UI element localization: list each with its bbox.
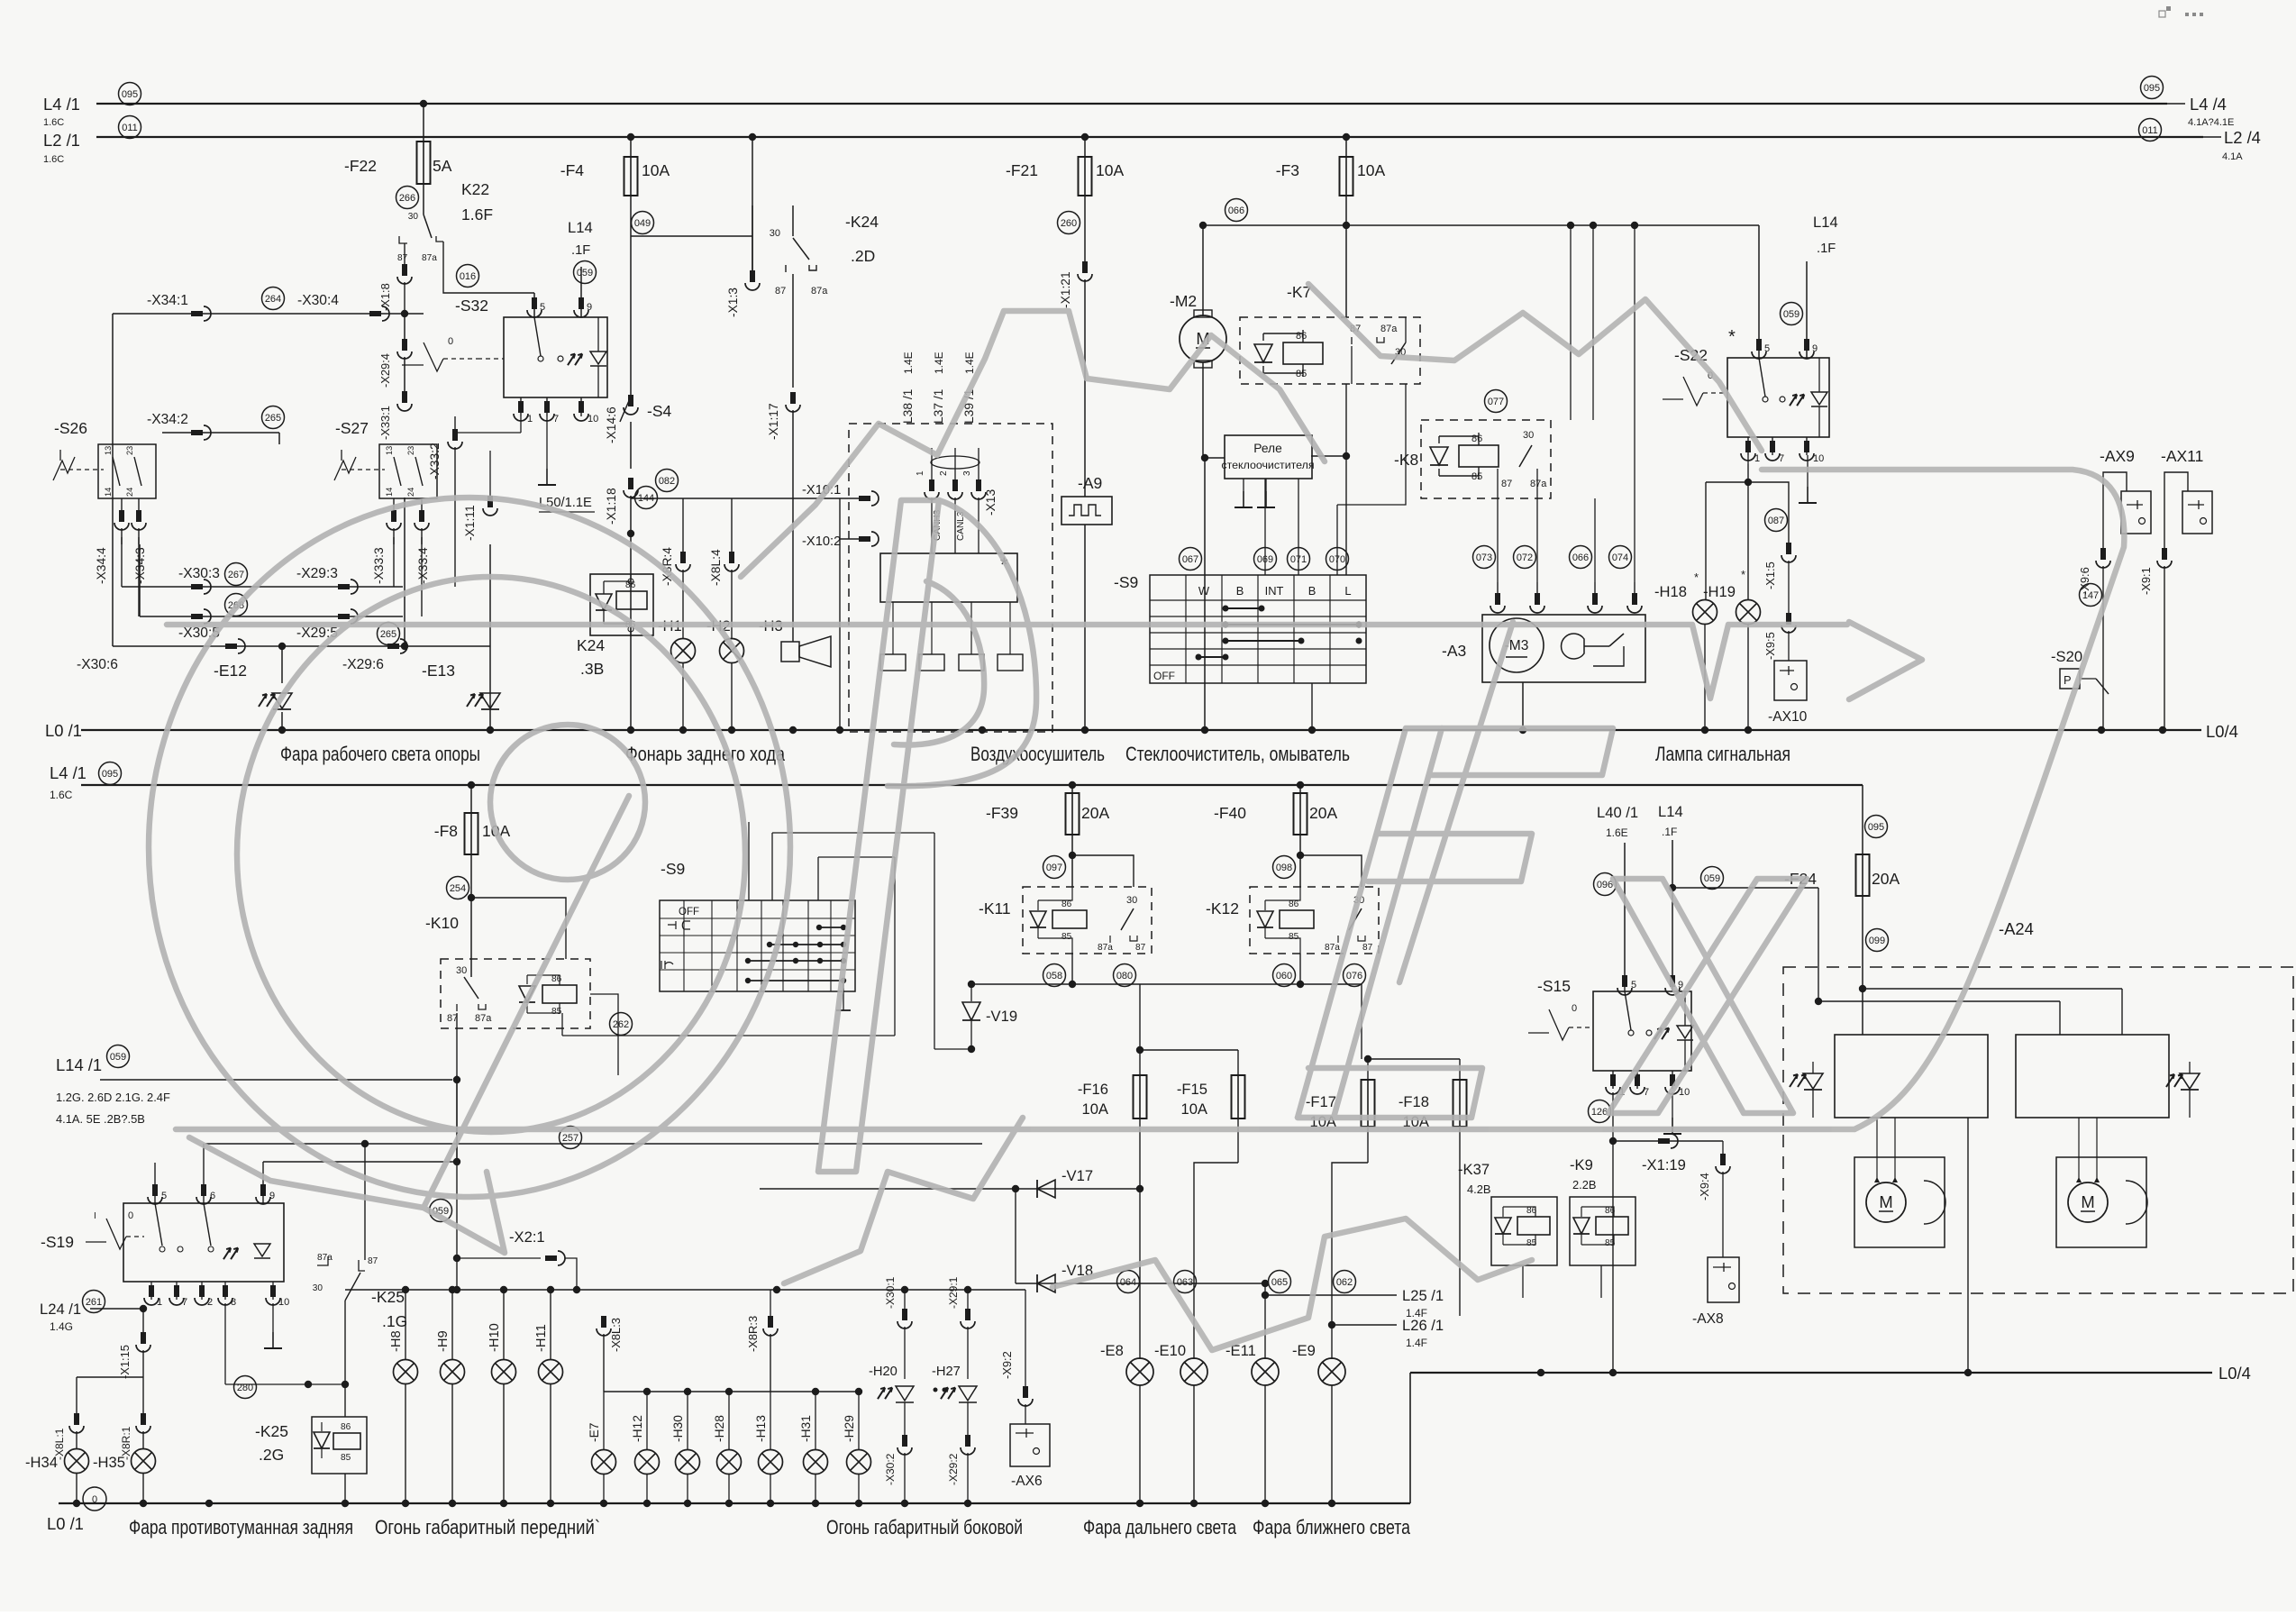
svg-text:-X1:3: -X1:3 (726, 288, 740, 317)
svg-text:Фара дальнего света: Фара дальнего света (1083, 1516, 1237, 1538)
svg-text:-X9:2: -X9:2 (1000, 1351, 1014, 1379)
svg-text:0: 0 (92, 1494, 97, 1505)
svg-text:-V19: -V19 (986, 1008, 1017, 1025)
svg-text:064: 064 (1120, 1277, 1136, 1288)
svg-text:OFF: OFF (1153, 670, 1175, 682)
svg-text:W: W (1198, 584, 1210, 598)
svg-text:076: 076 (1346, 971, 1362, 981)
svg-text:264: 264 (265, 294, 281, 305)
svg-text:M: M (2081, 1192, 2094, 1211)
svg-text:062: 062 (1336, 1277, 1353, 1288)
svg-text:L0 /1: L0 /1 (45, 721, 82, 740)
svg-text:1.4E: 1.4E (933, 352, 945, 374)
svg-text:011: 011 (122, 123, 138, 133)
svg-text:262: 262 (613, 1019, 629, 1030)
svg-text:-X29:3: -X29:3 (296, 566, 338, 581)
svg-text:-S9: -S9 (661, 860, 685, 878)
svg-text:5: 5 (1631, 980, 1636, 991)
svg-text:*: * (1728, 327, 1736, 347)
svg-text:13: 13 (385, 446, 394, 455)
svg-text:L4 /1: L4 /1 (43, 95, 80, 114)
svg-text:87a: 87a (475, 1013, 492, 1024)
svg-text:-X8R:3: -X8R:3 (746, 1316, 760, 1352)
svg-text:Фонарь заднего хода: Фонарь заднего хода (625, 743, 786, 765)
svg-text:-H30: -H30 (671, 1415, 685, 1442)
svg-text:-X29:2: -X29:2 (947, 1453, 960, 1485)
svg-text:-M2: -M2 (1170, 292, 1197, 310)
svg-text:Фара рабочего света опоры: Фара рабочего света опоры (280, 743, 480, 765)
svg-text:K22: K22 (461, 180, 489, 198)
svg-text:-K10: -K10 (425, 914, 459, 932)
svg-text:-E13: -E13 (422, 662, 455, 680)
svg-text:-V17: -V17 (1061, 1167, 1093, 1184)
svg-text:14: 14 (104, 488, 113, 497)
svg-text:L37 /1: L37 /1 (932, 389, 945, 424)
svg-text:1.6C: 1.6C (50, 789, 73, 801)
svg-text:7: 7 (1779, 453, 1784, 464)
svg-text:2: 2 (939, 470, 949, 476)
svg-text:10A: 10A (1081, 1100, 1108, 1118)
svg-text:-X30:6: -X30:6 (77, 657, 118, 672)
svg-text:L: L (1344, 584, 1351, 598)
svg-text:K24: K24 (577, 636, 605, 654)
svg-text:L38 /1: L38 /1 (901, 389, 915, 424)
svg-text:1: 1 (1754, 453, 1760, 464)
svg-text:-X9:1: -X9:1 (2139, 567, 2153, 595)
svg-text:3: 3 (962, 470, 972, 476)
svg-text:-A24: -A24 (1999, 919, 2034, 938)
svg-text:L0 /1: L0 /1 (47, 1514, 84, 1533)
svg-text:-X34:4: -X34:4 (95, 547, 108, 584)
svg-text:Реле: Реле (1253, 442, 1282, 455)
svg-text:1: 1 (157, 1297, 162, 1308)
svg-text:-X34:1: -X34:1 (147, 293, 188, 308)
svg-text:011: 011 (2142, 125, 2158, 136)
svg-text:7: 7 (553, 414, 559, 425)
svg-text:-H35: -H35 (93, 1454, 125, 1471)
svg-text:10: 10 (588, 414, 598, 425)
svg-text:-F3: -F3 (1276, 161, 1299, 179)
svg-text:099: 099 (1869, 936, 1885, 946)
svg-text:9: 9 (269, 1191, 275, 1201)
svg-text:L14: L14 (1813, 214, 1838, 231)
svg-text:23: 23 (125, 446, 134, 455)
svg-text:23: 23 (406, 446, 415, 455)
svg-text:-H31: -H31 (799, 1415, 813, 1442)
svg-text:L0/4: L0/4 (2219, 1364, 2251, 1383)
svg-text:1: 1 (527, 414, 533, 425)
svg-text:-A3: -A3 (1442, 642, 1466, 660)
svg-text:1: 1 (916, 470, 925, 476)
svg-text:87a: 87a (1380, 324, 1398, 334)
svg-text:87a: 87a (1325, 943, 1340, 953)
svg-text:87: 87 (775, 286, 786, 297)
svg-text:-S15: -S15 (1537, 977, 1571, 995)
svg-text:L14: L14 (1658, 803, 1683, 820)
svg-text:.3B: .3B (580, 660, 604, 678)
svg-text:095: 095 (102, 769, 118, 780)
svg-text:-X33:1: -X33:1 (378, 406, 392, 440)
svg-text:-E7: -E7 (588, 1423, 601, 1442)
svg-text:-S4: -S4 (647, 402, 672, 420)
svg-text:4.1A?4.1E: 4.1A?4.1E (2188, 117, 2234, 128)
svg-text:87: 87 (1362, 943, 1373, 953)
svg-text:095: 095 (1868, 822, 1884, 833)
svg-text:.2G: .2G (259, 1446, 284, 1464)
svg-text:L4 /4: L4 /4 (2190, 95, 2227, 114)
svg-text:9: 9 (1812, 343, 1818, 354)
svg-text:.2D: .2D (851, 247, 875, 265)
svg-text:10A: 10A (1180, 1100, 1207, 1118)
svg-text:5A: 5A (433, 157, 452, 175)
svg-text:L14 /1: L14 /1 (56, 1055, 102, 1074)
svg-text:1.4G: 1.4G (50, 1320, 73, 1333)
svg-text:016: 016 (460, 271, 476, 282)
svg-text:7: 7 (182, 1297, 187, 1308)
svg-text:-H8: -H8 (389, 1330, 404, 1352)
svg-text:-X30:4: -X30:4 (297, 293, 339, 308)
svg-text:-F4: -F4 (560, 161, 585, 179)
svg-text:1.2G. 2.6D 2.1G. 2.4F: 1.2G. 2.6D 2.1G. 2.4F (56, 1091, 170, 1104)
svg-text:-S19: -S19 (41, 1233, 74, 1251)
svg-text:-AX6: -AX6 (1011, 1474, 1043, 1489)
svg-text:-AX8: -AX8 (1692, 1311, 1724, 1327)
svg-text:-X10:2: -X10:2 (802, 534, 841, 549)
svg-text:85: 85 (1296, 369, 1307, 379)
svg-text:-H9: -H9 (436, 1330, 451, 1352)
svg-text:-K12: -K12 (1206, 899, 1239, 918)
svg-text:-F39: -F39 (986, 804, 1018, 822)
svg-text:-F18: -F18 (1399, 1093, 1429, 1110)
svg-text:-H13: -H13 (754, 1415, 768, 1442)
svg-text:080: 080 (1116, 971, 1133, 981)
svg-text:-F40: -F40 (1214, 804, 1246, 822)
svg-text:-H27: -H27 (932, 1365, 961, 1379)
svg-text:049: 049 (634, 218, 651, 229)
svg-text:-X34:2: -X34:2 (147, 412, 188, 427)
svg-text:-X1:18: -X1:18 (605, 488, 618, 525)
svg-text:2.2B: 2.2B (1572, 1178, 1597, 1191)
svg-text:-X33:4: -X33:4 (416, 547, 430, 584)
svg-text:-AX11: -AX11 (2161, 447, 2203, 465)
svg-text:-E8: -E8 (1100, 1342, 1124, 1359)
svg-text:INT: INT (1265, 584, 1284, 598)
svg-text:-AX10: -AX10 (1768, 709, 1808, 725)
svg-text:077: 077 (1488, 397, 1504, 407)
svg-text:147: 147 (2082, 590, 2099, 601)
svg-text:-H10: -H10 (487, 1323, 502, 1352)
svg-text:Огонь габаритный боковой: Огонь габаритный боковой (826, 1516, 1023, 1538)
svg-text:-H20: -H20 (869, 1365, 897, 1379)
svg-text:стеклоочистителя: стеклоочистителя (1221, 459, 1314, 471)
svg-text:86: 86 (1471, 434, 1482, 444)
svg-text:-H19: -H19 (1703, 583, 1736, 600)
svg-text:065: 065 (1271, 1277, 1288, 1288)
svg-text:1.4E: 1.4E (902, 352, 915, 374)
svg-text:-X30:3: -X30:3 (178, 566, 220, 581)
svg-text:Воздухоосушитель: Воздухоосушитель (970, 743, 1105, 765)
svg-text:257: 257 (562, 1133, 579, 1144)
svg-text:Фара противотуманная задняя: Фара противотуманная задняя (129, 1516, 353, 1538)
svg-text:-K9: -K9 (1570, 1156, 1593, 1173)
svg-text:-X30:1: -X30:1 (884, 1276, 897, 1309)
svg-text:126: 126 (1591, 1107, 1608, 1118)
svg-text:10A: 10A (642, 161, 670, 179)
svg-text:-X14:6: -X14:6 (605, 406, 618, 443)
svg-text:87a: 87a (317, 1253, 333, 1263)
svg-text:85: 85 (1289, 932, 1299, 942)
svg-text:4.2B: 4.2B (1467, 1182, 1491, 1196)
svg-text:L2 /4: L2 /4 (2224, 128, 2261, 147)
svg-text:30: 30 (770, 228, 780, 239)
svg-text:L2 /1: L2 /1 (43, 131, 80, 150)
svg-text:072: 072 (1517, 552, 1533, 563)
svg-text:066: 066 (1572, 552, 1589, 563)
svg-text:87: 87 (1135, 943, 1146, 953)
svg-text:5: 5 (1764, 343, 1770, 354)
svg-text:-X30:2: -X30:2 (884, 1453, 897, 1485)
svg-text:-E12: -E12 (214, 662, 247, 680)
svg-text:-X2:1: -X2:1 (509, 1228, 545, 1246)
svg-text:L0/4: L0/4 (2206, 722, 2238, 741)
svg-text:-F15: -F15 (1177, 1081, 1207, 1098)
svg-text:-X1:11: -X1:11 (463, 505, 477, 541)
svg-text:2: 2 (207, 1297, 213, 1308)
svg-text:087: 087 (1768, 516, 1784, 526)
svg-text:-S27: -S27 (335, 419, 369, 437)
svg-text:058: 058 (1046, 971, 1062, 981)
svg-text:-H29: -H29 (843, 1415, 856, 1442)
svg-text:14: 14 (385, 488, 394, 497)
svg-text:-S32: -S32 (455, 297, 488, 315)
svg-text:-X9:5: -X9:5 (1763, 632, 1777, 660)
svg-text:Огонь габаритный передний`: Огонь габаритный передний` (375, 1516, 600, 1538)
svg-text:B: B (1236, 584, 1244, 598)
svg-text:5: 5 (540, 302, 545, 313)
svg-text:0: 0 (1572, 1003, 1577, 1014)
svg-text:067: 067 (1182, 554, 1198, 565)
svg-text:097: 097 (1046, 863, 1062, 873)
svg-text:265: 265 (265, 413, 281, 424)
svg-text:059: 059 (110, 1052, 126, 1063)
svg-text:30: 30 (1126, 895, 1137, 906)
svg-text:85: 85 (551, 1007, 562, 1017)
svg-text:073: 073 (1476, 552, 1492, 563)
svg-text:30: 30 (1523, 430, 1534, 441)
svg-text:-H11: -H11 (534, 1324, 549, 1352)
svg-text:-K8: -K8 (1394, 451, 1418, 469)
svg-text:L26 /1: L26 /1 (1402, 1317, 1444, 1334)
svg-text:L4 /1: L4 /1 (50, 763, 87, 782)
svg-text:L40 /1: L40 /1 (1597, 804, 1638, 821)
svg-text:10A: 10A (1357, 161, 1385, 179)
svg-text:-F21: -F21 (1006, 161, 1038, 179)
svg-text:M: M (1879, 1192, 1892, 1211)
svg-text:Фара ближнего света: Фара ближнего света (1253, 1516, 1411, 1538)
svg-text:-F17: -F17 (1306, 1093, 1336, 1110)
svg-text:266: 266 (399, 193, 415, 204)
svg-text:059: 059 (1783, 309, 1799, 320)
svg-text:24: 24 (125, 488, 134, 497)
svg-text:-H12: -H12 (631, 1415, 644, 1442)
svg-text:059: 059 (577, 268, 593, 278)
svg-text:.1F: .1F (1662, 826, 1677, 838)
svg-text:5: 5 (161, 1191, 167, 1201)
svg-text:-X8L:4: -X8L:4 (709, 549, 723, 586)
svg-text:-X8L:3: -X8L:3 (609, 1318, 623, 1352)
svg-text:87a: 87a (422, 253, 437, 263)
svg-text:4.1A. 5E .2B?.5B: 4.1A. 5E .2B?.5B (56, 1112, 145, 1126)
svg-text:6: 6 (210, 1191, 215, 1201)
svg-text:86: 86 (1061, 899, 1072, 909)
svg-text:86: 86 (1289, 899, 1299, 909)
svg-text:-A9: -A9 (1078, 474, 1102, 492)
svg-text:095: 095 (2144, 83, 2160, 94)
svg-text:066: 066 (1228, 205, 1244, 216)
svg-text:10A: 10A (1096, 161, 1124, 179)
svg-text:Лампа сигнальная: Лампа сигнальная (1655, 743, 1790, 765)
svg-text:P: P (2064, 673, 2072, 687)
svg-text:9: 9 (1678, 980, 1683, 991)
svg-text:063: 063 (1177, 1277, 1193, 1288)
svg-text:-S9: -S9 (1114, 573, 1138, 591)
svg-text:260: 260 (1061, 218, 1077, 229)
svg-text:I: I (94, 1211, 96, 1221)
svg-text:85: 85 (1471, 471, 1482, 482)
svg-text:30: 30 (313, 1283, 323, 1293)
svg-text:7: 7 (1644, 1087, 1649, 1098)
svg-text:87: 87 (397, 253, 408, 263)
svg-text:10: 10 (1813, 453, 1824, 464)
svg-text:30: 30 (408, 212, 419, 222)
svg-text:-E10: -E10 (1154, 1342, 1186, 1359)
svg-text:B: B (1308, 584, 1317, 598)
svg-text:-X9:4: -X9:4 (1698, 1173, 1711, 1201)
svg-text:-K24: -K24 (845, 213, 879, 231)
svg-text:20A: 20A (1081, 804, 1109, 822)
svg-text:098: 098 (1276, 863, 1292, 873)
svg-text:.1F: .1F (571, 243, 590, 258)
svg-text:-H34: -H34 (25, 1454, 58, 1471)
svg-text:30: 30 (456, 965, 467, 976)
svg-text:-H18: -H18 (1654, 583, 1687, 600)
svg-text:-H28: -H28 (713, 1415, 726, 1442)
svg-text:-X33:2: -X33:2 (428, 443, 442, 479)
svg-text:-X1:17: -X1:17 (767, 403, 780, 440)
svg-text:87: 87 (368, 1256, 378, 1266)
svg-text:20A: 20A (1872, 870, 1900, 888)
svg-text:8: 8 (231, 1297, 236, 1308)
svg-text:13: 13 (104, 446, 113, 455)
svg-text:-S26: -S26 (54, 419, 87, 437)
svg-text:095: 095 (122, 89, 138, 100)
svg-text:Стеклоочиститель, омыватель: Стеклоочиститель, омыватель (1125, 743, 1350, 765)
svg-text:10: 10 (1679, 1087, 1690, 1098)
svg-text:-K25: -K25 (371, 1288, 405, 1306)
svg-text:254: 254 (450, 883, 466, 894)
svg-text:1.4F: 1.4F (1406, 1337, 1427, 1349)
svg-text:-F16: -F16 (1078, 1081, 1108, 1098)
svg-text:L14: L14 (568, 219, 593, 236)
svg-text:24: 24 (406, 488, 415, 497)
svg-text:87a: 87a (1530, 479, 1547, 489)
svg-text:1.6C: 1.6C (43, 154, 64, 165)
svg-text:265: 265 (380, 629, 396, 640)
svg-text:-X29:1: -X29:1 (947, 1276, 960, 1309)
svg-text:*: * (1741, 568, 1745, 581)
svg-text:059: 059 (1704, 873, 1720, 884)
svg-text:*: * (1694, 571, 1699, 584)
svg-text:-X33:3: -X33:3 (372, 547, 386, 584)
svg-text:.1F: .1F (1817, 242, 1836, 256)
svg-text:096: 096 (1597, 880, 1613, 890)
svg-text:-X1:15: -X1:15 (118, 1345, 132, 1379)
svg-text:L24 /1: L24 /1 (40, 1301, 81, 1318)
svg-text:86: 86 (341, 1422, 351, 1432)
svg-text:-F22: -F22 (344, 157, 377, 175)
svg-text:87: 87 (1501, 479, 1512, 489)
svg-text:-K25: -K25 (255, 1422, 288, 1440)
svg-text:-AX9: -AX9 (2100, 447, 2135, 465)
svg-text:-X29:6: -X29:6 (342, 657, 384, 672)
svg-text:-K37: -K37 (1458, 1161, 1490, 1178)
svg-text:1.6E: 1.6E (1606, 826, 1628, 839)
svg-text:-E9: -E9 (1292, 1342, 1316, 1359)
svg-text:86: 86 (551, 974, 562, 984)
svg-text:074: 074 (1612, 552, 1628, 563)
svg-text:-S20: -S20 (2051, 648, 2082, 665)
svg-text:060: 060 (1276, 971, 1292, 981)
svg-text:85: 85 (341, 1453, 351, 1463)
svg-text:-X1:21: -X1:21 (1059, 271, 1072, 308)
svg-text:-X1:19: -X1:19 (1642, 1156, 1686, 1173)
svg-text:OFF: OFF (679, 907, 699, 918)
svg-text:082: 082 (659, 476, 675, 487)
svg-text:-F8: -F8 (434, 822, 458, 840)
svg-text:-X13: -X13 (984, 489, 998, 516)
svg-text:9: 9 (587, 302, 592, 313)
svg-text:261: 261 (86, 1297, 102, 1308)
svg-text:1.4E: 1.4E (963, 352, 976, 374)
svg-text:1.6F: 1.6F (461, 205, 493, 224)
svg-text:-X1:5: -X1:5 (1763, 561, 1777, 589)
svg-text:L25 /1: L25 /1 (1402, 1287, 1444, 1304)
svg-text:87a: 87a (811, 286, 828, 297)
svg-text:.1G: .1G (382, 1312, 407, 1330)
svg-text:85: 85 (1061, 932, 1072, 942)
svg-text:280: 280 (237, 1383, 253, 1393)
svg-text:87a: 87a (1098, 943, 1113, 953)
svg-text:267: 267 (228, 570, 244, 580)
svg-text:4.1A: 4.1A (2222, 151, 2243, 162)
svg-text:10: 10 (278, 1297, 289, 1308)
svg-text:86: 86 (1296, 331, 1307, 342)
svg-text:0: 0 (448, 336, 453, 347)
svg-text:-K11: -K11 (979, 899, 1011, 918)
svg-text:-X29:4: -X29:4 (378, 353, 392, 388)
svg-text:1.6C: 1.6C (43, 117, 64, 128)
svg-text:20A: 20A (1309, 804, 1337, 822)
svg-text:0: 0 (128, 1210, 133, 1221)
